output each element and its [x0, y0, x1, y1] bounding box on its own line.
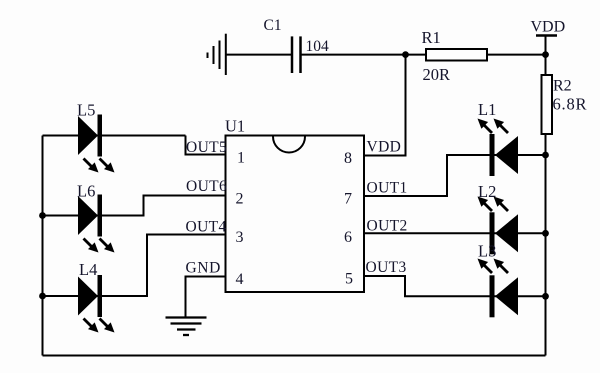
- svg-text:L6: L6: [77, 182, 95, 201]
- svg-text:1: 1: [237, 150, 245, 167]
- svg-text:6: 6: [344, 229, 352, 246]
- svg-text:L5: L5: [77, 101, 95, 120]
- svg-text:8: 8: [344, 150, 352, 167]
- svg-text:OUT6: OUT6: [186, 178, 227, 195]
- svg-text:OUT3: OUT3: [366, 259, 407, 276]
- svg-text:L4: L4: [79, 260, 97, 279]
- svg-text:OUT4: OUT4: [186, 219, 227, 236]
- svg-text:L1: L1: [478, 100, 496, 119]
- svg-text:OUT2: OUT2: [367, 218, 408, 235]
- svg-text:R1: R1: [422, 28, 441, 47]
- svg-text:L2: L2: [478, 182, 496, 201]
- svg-text:VDD: VDD: [367, 139, 402, 156]
- svg-text:OUT5: OUT5: [186, 139, 227, 156]
- svg-text:C1: C1: [264, 17, 282, 34]
- svg-text:R2: R2: [553, 78, 572, 95]
- svg-text:GND: GND: [186, 260, 221, 277]
- svg-text:5: 5: [345, 271, 353, 288]
- svg-text:4: 4: [236, 271, 244, 288]
- svg-text:6.8R: 6.8R: [553, 95, 588, 114]
- svg-text:2: 2: [236, 191, 244, 208]
- svg-text:L3: L3: [478, 242, 496, 261]
- svg-text:3: 3: [236, 229, 244, 246]
- svg-text:20R: 20R: [423, 65, 451, 84]
- svg-text:U1: U1: [225, 117, 245, 136]
- svg-text:VDD: VDD: [531, 19, 566, 36]
- svg-text:OUT1: OUT1: [367, 180, 408, 197]
- svg-text:104: 104: [306, 38, 330, 55]
- svg-text:7: 7: [344, 191, 352, 208]
